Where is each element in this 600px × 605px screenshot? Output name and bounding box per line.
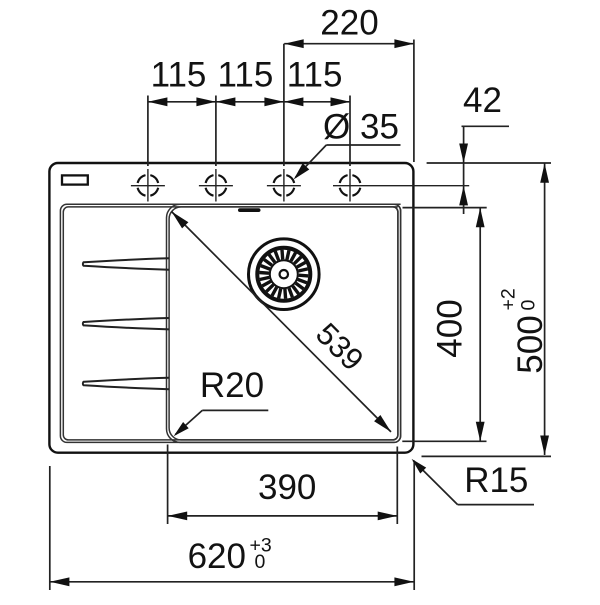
dim 115 line: [148, 101, 350, 103]
drain outer circle: [248, 239, 319, 310]
extension line 390 left: [167, 445, 169, 525]
faucet hole 2: [206, 175, 227, 196]
faucet hole 1: [138, 175, 159, 196]
extension line top edge right: [427, 162, 551, 164]
extension line sink bottom right: [422, 455, 552, 457]
svg-text:115: 115: [217, 55, 273, 94]
sink outer outline: [49, 163, 413, 453]
drain inner circle: [270, 260, 298, 288]
svg-text:220: 220: [320, 4, 378, 43]
extension line 620 left: [49, 466, 51, 590]
hole 3 centerlines: [267, 185, 301, 187]
svg-text:0: 0: [255, 551, 266, 573]
extension line hole3 (up to 220 dim): [283, 44, 285, 166]
svg-text:+2: +2: [498, 288, 520, 310]
dim 500 line: [544, 163, 546, 455]
R20 leader: [202, 409, 268, 411]
svg-text:115: 115: [151, 55, 207, 94]
extension line bowl bottom right: [402, 440, 486, 442]
svg-text:400: 400: [430, 299, 469, 357]
extension line bowl top right: [403, 207, 487, 209]
drain center cap: [280, 270, 288, 278]
svg-text:500: 500: [511, 315, 550, 373]
extension line right edge (220 dim): [413, 40, 415, 163]
dia 35 leader: [326, 144, 400, 146]
svg-text:42: 42: [463, 81, 502, 120]
drainboard ridge 1: [83, 258, 169, 269]
dim 390 line: [168, 515, 398, 517]
dim 400 line: [479, 208, 481, 442]
hole 4 centerlines: [333, 185, 469, 187]
logo plate: [62, 175, 88, 184]
drainboard ridge 2: [83, 318, 169, 329]
svg-text:390: 390: [258, 468, 316, 507]
bowl outline (inner line): [169, 207, 398, 440]
dim 42 stub: [462, 125, 510, 127]
svg-text:R15: R15: [464, 461, 528, 500]
drainboard ridge 3: [83, 378, 169, 389]
extension line 390 right: [396, 447, 398, 525]
sink rim inner outline (outer line): [60, 204, 400, 442]
bowl outline (outer line): [167, 204, 401, 442]
extension line 620 right: [413, 461, 415, 591]
drain spokes: [259, 250, 308, 299]
svg-text:620: 620: [188, 537, 246, 576]
svg-text:0: 0: [518, 300, 540, 311]
R15 leader: [458, 504, 534, 506]
extension line hole2: [215, 96, 217, 167]
dim 620 line: [50, 581, 414, 583]
sink rim inner outline (inner line): [63, 207, 398, 440]
overflow slot: [238, 208, 261, 212]
extension line hole4: [349, 96, 351, 167]
extension line hole1: [147, 96, 149, 167]
svg-text:Ø 35: Ø 35: [323, 108, 399, 147]
svg-text:R20: R20: [200, 366, 264, 405]
hole 2 centerlines: [199, 185, 233, 187]
faucet hole 3: [274, 175, 295, 196]
dim 220 line: [284, 43, 414, 45]
drain ring: [257, 248, 310, 301]
faucet hole 4: [340, 175, 361, 196]
hole 1 centerlines: [131, 185, 165, 187]
dim 539 diagonal line: [172, 212, 392, 432]
svg-text:115: 115: [287, 55, 343, 94]
dim 42 line: [463, 126, 465, 214]
